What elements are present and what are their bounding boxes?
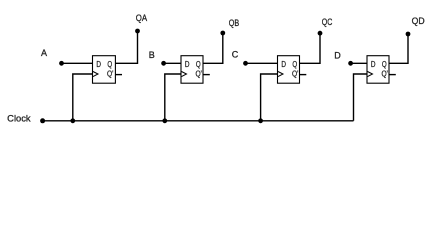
svg-text:C: C (232, 50, 239, 60)
svg-text:Q': Q' (292, 68, 299, 78)
wire: clock riser to U3 clk (261, 74, 278, 121)
svg-text:D: D (371, 59, 376, 69)
svg-text:Clock: Clock (7, 114, 31, 124)
wire: U2.Q to QB riser (203, 33, 223, 63)
svg-text:Q: Q (107, 59, 112, 69)
wire: B to U2.D (164, 62, 181, 64)
junction: clock tap U1 (70, 118, 75, 123)
wire: U2.Q' stub (203, 74, 210, 76)
junction: clock tap U2 (162, 118, 167, 123)
terminal dot QA (135, 29, 140, 34)
svg-text:D: D (185, 59, 190, 69)
svg-text:D: D (96, 59, 101, 69)
svg-text:Q: Q (382, 59, 387, 69)
wire: U1.Q to QA riser (115, 31, 137, 63)
svg-text:Q: Q (196, 59, 201, 69)
d-flip-flop U3 (278, 56, 300, 83)
wire: U4.Q to QD riser (389, 34, 408, 63)
svg-text:QA: QA (136, 13, 147, 23)
junction: clock tap U3 (258, 118, 263, 123)
svg-text:A: A (41, 48, 47, 58)
svg-text:QC: QC (322, 17, 333, 27)
wire: U4.Q' stub (389, 74, 396, 76)
svg-text:D: D (334, 51, 341, 61)
wire: U3.Q' stub (300, 74, 307, 76)
wire: C to U3.D (246, 62, 278, 64)
svg-text:B: B (149, 50, 155, 60)
terminal dot D (348, 61, 353, 66)
svg-text:Q': Q' (107, 68, 114, 78)
terminal dot QB (220, 31, 225, 36)
terminal dot B (161, 61, 166, 66)
d-flip-flop U1 (93, 56, 116, 83)
terminal dot Clock (40, 118, 45, 123)
d-flip-flop U4 (367, 56, 389, 83)
svg-text:QB: QB (229, 18, 239, 28)
svg-text:Q': Q' (382, 68, 389, 78)
terminal dot QD (406, 32, 411, 37)
wire: clock riser to U1 clk (73, 74, 93, 121)
d-flip-flop U2 (181, 56, 203, 83)
wire: D to U4.D (351, 62, 367, 64)
wire: clock riser to U4 clk (rail end corner) (354, 74, 368, 121)
wire: A to U1.D (62, 62, 93, 64)
svg-text:Q: Q (292, 59, 297, 69)
svg-text:QD: QD (412, 16, 425, 26)
svg-text:Q': Q' (196, 68, 203, 78)
terminal dot A (59, 61, 64, 66)
svg-text:D: D (281, 59, 286, 69)
clock rail (net CLK) (43, 120, 354, 122)
terminal dot C (243, 61, 248, 66)
terminal dot QC (318, 31, 323, 36)
wire: U3.Q to QC riser (300, 33, 321, 63)
wire: clock riser to U2 clk (165, 74, 181, 121)
wire: U1.Q' stub (115, 74, 122, 76)
